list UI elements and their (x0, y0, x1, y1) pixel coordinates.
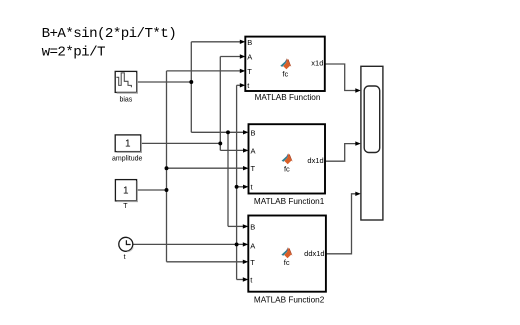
svg-text:B: B (251, 128, 256, 137)
junction T trunk branch to Function1 (165, 166, 169, 170)
svg-text:bias: bias (119, 96, 132, 103)
mux outer box (361, 66, 383, 220)
junction t trunk branch to Function1 (235, 185, 239, 189)
wire T: to MATLAB Function2 T port (167, 261, 244, 263)
junction T trunk at T output (165, 188, 169, 192)
svg-text:ddx1d: ddx1d (304, 249, 324, 258)
wire T: to MATLAB Function1 T port (167, 167, 245, 169)
svg-text:x1d: x1d (311, 59, 323, 68)
svg-text:B: B (250, 222, 255, 231)
svg-text:1: 1 (123, 185, 129, 196)
svg-text:T: T (123, 203, 128, 210)
amplitude constant block (115, 135, 141, 152)
wire x1d output to mux (325, 64, 356, 91)
wire A: trunk vertical x=220.3 (219, 57, 221, 151)
U3 MATLAB logo (281, 247, 292, 258)
MATLAB Function block U1 (245, 37, 324, 91)
svg-text:t: t (124, 254, 126, 261)
T constant block (115, 180, 136, 201)
svg-text:MATLAB Function: MATLAB Function (255, 93, 321, 102)
wire A: to MATLAB Function1 A port (220, 149, 244, 151)
svg-text:T: T (251, 164, 256, 173)
bias block (115, 71, 137, 92)
wire B: bias output horizontal (137, 81, 192, 83)
wire t: to MATLAB Function1 t port (237, 186, 244, 188)
wire ddx1d output to mux (326, 194, 356, 254)
wire dx1d output to mux (325, 144, 356, 162)
MATLAB Function2 block U3 (248, 216, 326, 292)
U1 MATLAB logo (280, 58, 291, 69)
wire t: clock output horizontal to MATLAB Function2 A port (132, 243, 244, 245)
svg-text:1: 1 (125, 138, 131, 149)
svg-text:A: A (247, 53, 252, 62)
junction B trunk branch x=228 (226, 130, 230, 134)
wire T: T constant output horizontal (137, 189, 167, 191)
wire B: to MATLAB Function1 B port (191, 131, 244, 133)
U2 MATLAB logo (282, 153, 293, 164)
wire B: to MATLAB Function B port (191, 41, 240, 43)
svg-text:T: T (250, 258, 255, 267)
junction clock/t trunk (235, 242, 239, 246)
svg-text:B+A*sin(2*pi/T*t): B+A*sin(2*pi/T*t) (42, 26, 177, 42)
wire A: to MATLAB Function A port (220, 56, 240, 58)
wire t: to MATLAB Function2 t port (237, 279, 244, 281)
svg-text:A: A (250, 242, 255, 251)
svg-text:A: A (251, 146, 256, 155)
svg-text:fc: fc (284, 164, 290, 173)
MATLAB Function1 block U2 (249, 124, 326, 193)
wire B: trunk vertical x=191.3 (190, 42, 192, 133)
svg-text:dx1d: dx1d (307, 156, 323, 165)
bias waveform icon (116, 73, 131, 87)
svg-text:fc: fc (284, 258, 290, 267)
svg-text:B: B (247, 38, 252, 47)
clock hands (126, 240, 130, 244)
junction amplitude/A trunk (218, 141, 222, 145)
clock block (119, 237, 133, 251)
junction bias/B trunk (189, 80, 193, 84)
wire B: trunk vertical x=228 to block3 (227, 132, 229, 226)
wire A: amplitude output horizontal (141, 142, 221, 144)
wire B: to MATLAB Function2 B port (228, 225, 244, 227)
wire t: trunk vertical x=236.6 (236, 85, 238, 279)
svg-text:amplitude: amplitude (112, 156, 142, 163)
svg-text:MATLAB Function1: MATLAB Function1 (254, 197, 325, 206)
svg-text:w=2*pi/T: w=2*pi/T (42, 45, 105, 61)
svg-text:T: T (247, 67, 252, 76)
svg-text:fc: fc (282, 69, 288, 78)
mux inner capsule (364, 86, 380, 153)
wire t: to MATLAB Function t port (237, 84, 241, 86)
wire T: trunk vertical x=166.5 (166, 71, 168, 262)
wire T: to MATLAB Function T port (167, 70, 241, 72)
svg-text:MATLAB Function2: MATLAB Function2 (254, 295, 325, 304)
